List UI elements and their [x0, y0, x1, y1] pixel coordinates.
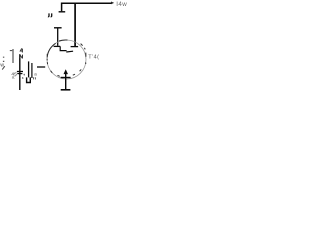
wire: anode drop line from rail — [74, 3, 76, 46]
capacitor C2 right plate — [31, 63, 33, 78]
tick right of capacitor C3 — [23, 74, 25, 76]
glyph: open box below capacitor C2 — [27, 77, 31, 82]
label: N mark at input line top — [20, 55, 23, 59]
label: 4 mark above input line — [20, 48, 22, 52]
terminal: plate stub T-bar — [59, 11, 66, 13]
grid bar (left element bottom plate) — [54, 45, 61, 47]
cathode arrow (points up) — [64, 69, 69, 74]
wire: supply rail (corner at left, runs right) — [62, 3, 112, 11]
ground bar — [61, 89, 71, 91]
svg-text:a:': a:' — [12, 75, 16, 80]
capacitor C3 plate upper (on input line) — [17, 71, 23, 73]
tick: diagonal stroke lower left — [2, 66, 5, 69]
label: colon dots — [3, 57, 5, 62]
tick: dash left of node — [10, 50, 12, 52]
wire: cathode lead down — [65, 72, 67, 90]
arrowhead at right end of supply rail — [111, 2, 114, 5]
wire: input line (left vertical) — [19, 54, 21, 90]
cathode bar (offset left, slight tilt) — [66, 50, 73, 53]
wire: grid lead dash — [37, 66, 45, 68]
capacitor C3 plate lower (on input line) — [17, 73, 22, 75]
tick: quote left of box — [22, 77, 24, 79]
svg-text:T’4(: T’4( — [88, 55, 99, 61]
svg-text:a: a — [34, 71, 37, 76]
tube envelope V1: darker edge dashes — [47, 40, 86, 76]
anode bar (right element bottom plate) — [71, 46, 79, 48]
tick: quotes right of box — [33, 77, 35, 79]
capacitor C2 left plate — [28, 61, 30, 77]
wire: step from grid bar — [60, 46, 66, 50]
tube envelope V1: faint circle outline — [47, 40, 86, 79]
cathode bar below circle — [61, 77, 71, 79]
node: small vertical segment upper left — [12, 49, 14, 63]
svg-text:I4w: I4w — [116, 1, 127, 8]
capacitor C1 top plate — [54, 27, 62, 29]
label: JJ marks — [48, 13, 52, 16]
wire: grid drop line — [57, 28, 59, 46]
